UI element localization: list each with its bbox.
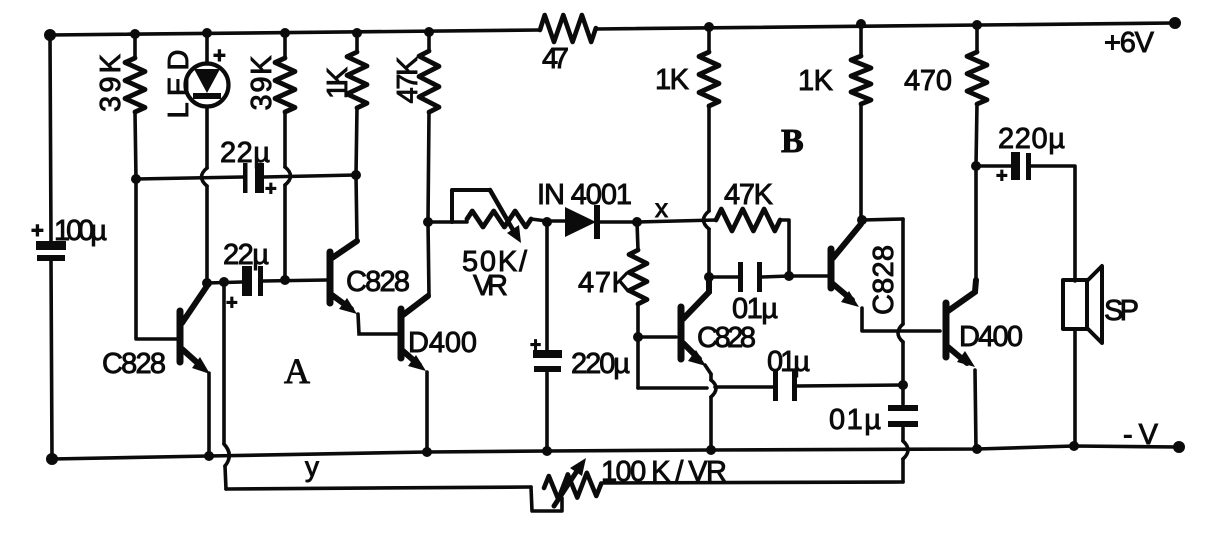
svg-text:x: x <box>655 193 668 223</box>
svg-text:IN 4001: IN 4001 <box>537 179 632 211</box>
svg-text:C828: C828 <box>868 245 900 315</box>
svg-text:01µ: 01µ <box>767 346 810 378</box>
svg-text:D400: D400 <box>408 327 477 359</box>
svg-text:+: + <box>213 43 226 68</box>
svg-text:22µ: 22µ <box>220 137 270 169</box>
svg-text:220µ: 220µ <box>998 123 1065 155</box>
svg-text:D400: D400 <box>959 321 1023 353</box>
svg-text:+6V: +6V <box>1104 27 1155 59</box>
svg-text:C828: C828 <box>697 322 756 354</box>
svg-text:47: 47 <box>542 43 569 75</box>
svg-text:1K: 1K <box>322 66 354 99</box>
svg-text:A: A <box>284 351 310 391</box>
svg-text:22µ: 22µ <box>223 239 269 271</box>
svg-text:1 K: 1 K <box>655 64 690 96</box>
svg-text:100µ: 100µ <box>54 215 107 247</box>
svg-text:47K: 47K <box>578 267 632 299</box>
svg-text:y: y <box>305 451 319 482</box>
svg-text:C828: C828 <box>346 266 410 298</box>
svg-text:39K: 39K <box>95 53 127 112</box>
svg-text:B: B <box>781 123 804 160</box>
svg-text:+: + <box>530 335 541 356</box>
svg-text:SP: SP <box>1104 295 1139 327</box>
svg-text:+: + <box>265 178 277 200</box>
svg-text:+: + <box>996 165 1008 187</box>
svg-text:LED: LED <box>163 50 195 119</box>
svg-text:470: 470 <box>904 65 952 97</box>
svg-text:+: + <box>226 292 238 314</box>
svg-text:39K: 39K <box>246 55 278 111</box>
svg-text:1 K: 1 K <box>798 65 834 97</box>
svg-text:01µ: 01µ <box>732 293 778 325</box>
svg-text:220µ: 220µ <box>571 348 630 380</box>
svg-text:100 K / VR: 100 K / VR <box>601 456 727 488</box>
svg-text:- V: - V <box>1123 419 1159 451</box>
svg-text:+: + <box>31 218 44 243</box>
svg-text:C828: C828 <box>102 348 166 380</box>
svg-text:47K: 47K <box>724 179 774 211</box>
svg-text:01µ: 01µ <box>829 404 881 436</box>
svg-text:VR: VR <box>473 270 508 302</box>
svg-text:47K: 47K <box>392 56 424 104</box>
